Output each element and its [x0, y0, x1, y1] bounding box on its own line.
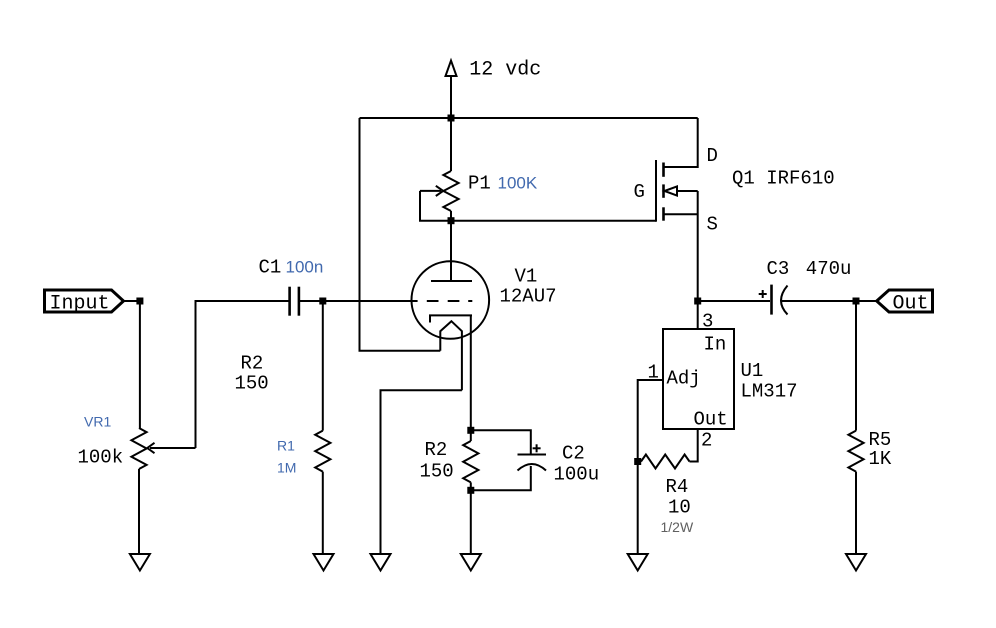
wire input down to VR1 [139, 301, 141, 428]
capacitor C2 plus plate [518, 454, 547, 456]
svg-text:Out: Out [893, 293, 929, 316]
capacitor C3 plus sign [759, 290, 767, 298]
svg-text:2: 2 [701, 430, 712, 452]
wire R5 bottom [855, 472, 857, 554]
svg-text:C3: C3 [767, 258, 790, 280]
node junction dot P1 bottom [448, 217, 455, 224]
mosfet Q1 channel bars [662, 163, 665, 221]
svg-text:R1: R1 [277, 438, 295, 454]
svg-text:Input: Input [50, 293, 110, 316]
triode V1 plate [431, 280, 472, 282]
wire heater drop left [360, 118, 441, 351]
svg-text:10: 10 [668, 497, 691, 519]
wire out down to R5 [855, 301, 857, 431]
resistor R1 [315, 431, 330, 472]
node junction dot out [853, 298, 860, 305]
ground R2 [461, 554, 481, 571]
svg-text:Out: Out [694, 409, 728, 431]
svg-text:1M: 1M [277, 460, 296, 476]
svg-text:S: S [707, 213, 718, 235]
capacitor C1 plates [290, 287, 299, 316]
svg-text:1K: 1K [869, 448, 892, 470]
wire R2 bottom [470, 482, 472, 554]
potentiometer VR1 [131, 428, 146, 469]
svg-text:D: D [707, 145, 718, 167]
capacitor C2 plus sign [533, 444, 541, 452]
svg-text:100n: 100n [286, 258, 324, 277]
wire top rail [360, 117, 698, 119]
wire plate lead [450, 221, 452, 281]
svg-text:100k: 100k [78, 447, 124, 469]
svg-text:VR1: VR1 [84, 414, 111, 430]
mosfet Q1 body arrow [665, 186, 698, 195]
node junction dot adj/R4 [634, 458, 641, 465]
svg-text:150: 150 [235, 372, 269, 394]
triode V1 heater [440, 321, 462, 390]
ground heater [371, 554, 391, 571]
wire VR1 wiper up [196, 301, 289, 448]
svg-text:470u: 470u [806, 258, 852, 280]
wire C2 bottom branch [471, 466, 531, 490]
wire P1 top lead [450, 118, 452, 171]
wire source down [697, 191, 699, 301]
svg-text:G: G [634, 181, 645, 203]
svg-text:R2: R2 [241, 352, 264, 374]
wire U1 pin2 [690, 429, 698, 462]
svg-text:U1: U1 [741, 360, 764, 382]
svg-text:100K: 100K [498, 174, 538, 193]
regulator U1 box [663, 329, 734, 429]
wire input stub [124, 300, 140, 302]
wire heater to ground [381, 390, 462, 554]
ground VR1 [130, 554, 150, 571]
ground R5 [846, 554, 866, 571]
svg-text:1: 1 [648, 362, 659, 384]
node junction dot C1/R1 [319, 298, 326, 305]
svg-text:V1: V1 [515, 266, 538, 288]
wire C2 top branch [471, 430, 531, 454]
mosfet Q1 source lead [664, 213, 698, 215]
capacitor C2 curved plate [518, 464, 547, 471]
resistor R4 [641, 455, 690, 469]
wire C1 to grid node [299, 300, 418, 302]
node junction dot input [136, 298, 143, 305]
wire R1 top lead [322, 301, 324, 431]
ground R1 [314, 554, 334, 571]
VR1 wiper arrow [147, 443, 195, 453]
wire R1 bottom [322, 472, 324, 554]
wire VR1 bottom [138, 469, 140, 554]
node junction dot R2 bottom [467, 487, 474, 494]
potentiometer P1 [443, 171, 458, 211]
node junction dot source/out [694, 298, 701, 305]
mosfet Q1 drain lead [664, 118, 698, 167]
flag Out [877, 290, 933, 312]
wire cathode down [470, 315, 472, 441]
wire C3 to out node [782, 300, 878, 302]
svg-text:100u: 100u [554, 463, 600, 485]
wire U1 adj pin1 [638, 380, 663, 462]
node junction dot at rail/P1 [448, 115, 455, 122]
svg-text:R2: R2 [425, 439, 448, 461]
wire P1 bottom lead [450, 211, 452, 221]
triode V1 envelope [412, 261, 490, 339]
svg-text:12AU7: 12AU7 [500, 286, 557, 308]
wire U1 pin3 [697, 301, 699, 329]
svg-text:Q1 IRF610: Q1 IRF610 [732, 167, 835, 189]
triode V1 grid dashes [427, 300, 473, 302]
svg-text:C1: C1 [259, 256, 282, 278]
svg-text:1/2W: 1/2W [661, 519, 694, 535]
wire P1 wiper loop [420, 191, 451, 221]
P1 wiper arrow [420, 186, 443, 196]
capacitor C3 plus plate [770, 285, 773, 315]
svg-text:C2: C2 [562, 443, 585, 465]
power symbol 12 vdc arrow [446, 61, 457, 118]
triode V1 cathode [430, 315, 472, 322]
svg-text:3: 3 [702, 311, 713, 333]
resistor R2 cathode [463, 441, 478, 482]
wire adj to ground [637, 462, 639, 555]
capacitor C3 curved plate [781, 286, 788, 315]
resistor R5 [848, 431, 863, 472]
svg-text:Adj: Adj [667, 368, 701, 390]
svg-text:LM317: LM317 [741, 381, 798, 403]
svg-text:150: 150 [420, 460, 454, 482]
ground R4 [628, 554, 648, 571]
svg-text:R4: R4 [666, 476, 689, 498]
svg-text:P1: P1 [468, 172, 491, 194]
svg-text:In: In [704, 334, 727, 356]
flag Input [45, 290, 124, 312]
wire gate wire to Q1 [451, 220, 656, 222]
svg-text:12 vdc: 12 vdc [469, 59, 541, 82]
mosfet Q1 gate bar [655, 160, 657, 222]
wire to C3 [698, 300, 770, 302]
node junction dot cathode/R2 [467, 427, 474, 434]
